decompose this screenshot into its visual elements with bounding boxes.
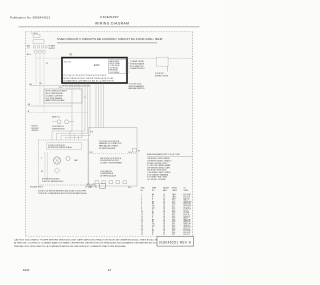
svg-text:P4-1: P4-1 (172, 223, 175, 225)
svg-text:WIRE DESIGNATION BY COLOR CODE: WIRE DESIGNATION BY COLOR CODE (147, 153, 181, 156)
svg-text:P2-2: P2-2 (172, 209, 175, 211)
svg-text:P4-6: P4-6 (172, 232, 175, 234)
svg-text:10 V VIOLET / VIOLETA: 10 V VIOLET / VIOLETA (147, 178, 166, 181)
svg-text:POSITION / COMMUTATEUR EN POSI: POSITION / COMMUTATEUR EN POSITION DEVER… (38, 192, 87, 195)
svg-text:TB-L2: TB-L2 (172, 198, 176, 200)
P3 text block 2 (100, 158, 123, 165)
svg-text:1: 1 (141, 194, 142, 196)
svg-text:W: W (28, 111, 30, 113)
svg-text:GND OR: GND OR (184, 225, 191, 227)
svg-text:DS-C W: DS-C W (184, 214, 190, 216)
anti-tip note text (129, 83, 146, 90)
svg-text:P4-2: P4-2 (172, 225, 175, 227)
supply wire N (39, 54, 41, 106)
svg-text:PRB-1 BL: PRB-1 BL (184, 221, 191, 223)
svg-text:WIRE: WIRE (152, 187, 156, 189)
svg-text:P1-4: P1-4 (172, 200, 175, 202)
P3 text block 3 (100, 171, 117, 178)
wiring table rows (141, 194, 192, 236)
svg-text:FROM: FROM (172, 187, 177, 189)
svg-text:SW-NO BR: SW-NO BR (184, 201, 193, 203)
terminal screws row (28, 46, 48, 48)
svg-text:17: 17 (141, 223, 143, 225)
svg-text:18: 18 (163, 210, 165, 212)
svg-text:EOC-5 BK: EOC-5 BK (184, 230, 192, 232)
diagram right border (192, 32, 194, 236)
svg-text:P2-1: P2-1 (172, 207, 175, 209)
svg-text:P1: P1 (46, 63, 48, 65)
svg-text:OVEN CIRCUIT /\ CIRCUITS DE CU: OVEN CIRCUIT /\ CIRCUITS DE CUISSON / CI… (57, 37, 162, 41)
wire GR to left (28, 105, 72, 107)
wires into lock motor box (52, 106, 90, 140)
svg-text:18: 18 (163, 221, 165, 223)
motor note text (32, 126, 40, 132)
svg-text:INTERR. PORTE: INTERR. PORTE (155, 76, 169, 78)
svg-text:SUPPLY: SUPPLY (49, 48, 56, 50)
svg-text:INTERRUPTEUR: INTERRUPTEUR (52, 128, 65, 130)
svg-text:MTR-1 BL: MTR-1 BL (184, 203, 191, 205)
svg-text:DE VERROUILLAGE: DE VERROUILLAGE (99, 147, 116, 150)
svg-text:TERM.: TERM. (184, 190, 190, 192)
svg-text:P3-6 BK/W P3-8 W: P3-6 BK/W P3-8 W (30, 187, 43, 189)
note box text (46, 91, 67, 103)
EOC bottom pin ticks (64, 82, 124, 83)
svg-text:TERM.: TERM. (172, 190, 178, 192)
lock motor symbol (53, 157, 60, 164)
EOC relay list box (109, 60, 127, 74)
svg-text:18: 18 (163, 223, 165, 225)
EOC relay list text (110, 60, 121, 74)
svg-text:EOC: EOC (94, 63, 100, 67)
svg-text:GY: GY (152, 209, 154, 211)
svg-text:20: 20 (141, 228, 143, 230)
door switch wiring (52, 121, 57, 123)
svg-text:22: 22 (141, 232, 143, 234)
svg-text:TB-L1: TB-L1 (172, 194, 176, 196)
diagram top border (26, 31, 193, 33)
svg-text:12: 12 (141, 214, 143, 216)
svg-text:P2-3: P2-3 (172, 210, 175, 212)
svg-text:10: 10 (141, 210, 143, 212)
svg-text:14: 14 (163, 194, 165, 196)
svg-text:DS-NO R: DS-NO R (184, 216, 191, 218)
svg-text:DOOR SWITCH: DOOR SWITCH (52, 126, 64, 128)
svg-text:P1-6: P1-6 (172, 203, 175, 205)
part number box (157, 237, 194, 247)
oven circuit title underline (57, 42, 157, 44)
wire BK to left (30, 85, 65, 87)
svg-text:18: 18 (163, 214, 165, 216)
svg-text:18: 18 (163, 216, 165, 218)
legend underline (147, 156, 193, 158)
svg-text:EOC-6 W: EOC-6 W (184, 232, 191, 234)
svg-text:BK W R Y BR BL GR OR G: BK W R Y BR BL GR OR GY V BK W R Y (63, 85, 91, 87)
svg-text:C30EW45P: C30EW45P (100, 15, 119, 19)
svg-text:P4-5: P4-5 (172, 230, 175, 232)
svg-text:4: 4 (141, 200, 142, 202)
svg-text:18: 18 (163, 227, 165, 229)
svg-text:14: 14 (141, 218, 143, 220)
svg-text:WIRING DIAGRAM: WIRING DIAGRAM (95, 22, 129, 26)
svg-text:BL: BL (152, 221, 154, 223)
svg-text:E230: E230 (23, 268, 30, 272)
svg-text:CLOSED / PORTE FERMEE: CLOSED / PORTE FERMEE (100, 163, 123, 165)
svg-text:P3-4: P3-4 (129, 152, 132, 154)
svg-text:P3-6: P3-6 (172, 219, 175, 221)
diagram area tint (26, 32, 193, 237)
meat probe note text (130, 60, 145, 70)
svg-text:14: 14 (163, 196, 165, 198)
svg-text:16: 16 (141, 221, 143, 223)
lock cam diamond (54, 168, 60, 174)
svg-text:P3-1: P3-1 (88, 187, 91, 189)
svg-text:MOTOR: MOTOR (32, 126, 39, 128)
door switch box (156, 57, 168, 66)
svg-text:Y: Y (152, 200, 153, 202)
svg-text:SW-C Y: SW-C Y (184, 200, 190, 202)
svg-text:EOC-4 V: EOC-4 V (184, 228, 191, 230)
svg-text:SHOWN IN UNLOCKED: SHOWN IN UNLOCKED (42, 178, 60, 180)
svg-text:14: 14 (163, 198, 165, 200)
door lock motor box (39, 140, 89, 185)
svg-text:PRB-2 GR: PRB-2 GR (184, 223, 192, 225)
svg-text:318046251 REV A: 318046251 REV A (159, 241, 192, 245)
svg-text:MTR-2 GR: MTR-2 GR (184, 205, 192, 207)
wire bundle below EOC (65, 83, 104, 127)
svg-text:9: 9 (141, 209, 142, 211)
svg-text:18: 18 (163, 234, 165, 236)
svg-text:18: 18 (163, 209, 165, 211)
svg-text:18: 18 (163, 225, 165, 227)
svg-text:TB-N: TB-N (172, 196, 176, 198)
lock switch aux box (100, 184, 106, 188)
svg-text:P3-8: P3-8 (172, 221, 175, 223)
svg-text:EOC-3 R: EOC-3 R (184, 198, 191, 200)
supply wire L2 (43, 54, 45, 113)
svg-text:EOC-1 BK: EOC-1 BK (184, 194, 192, 196)
lock switch symbol (85, 184, 97, 187)
svg-text:CAUTION: DISCONNECT POWER BEFO: CAUTION: DISCONNECT POWER BEFORE SERVICI… (14, 238, 179, 241)
svg-text:Publication No. 5995434513: Publication No. 5995434513 (10, 16, 50, 20)
svg-text:BL: BL (152, 203, 154, 205)
svg-text:5: 5 (141, 201, 142, 203)
diagram left border (25, 32, 27, 237)
svg-text:BK/W P1-5: BK/W P1-5 (52, 116, 60, 118)
svg-text:11: 11 (141, 212, 143, 214)
dotted wire W (28, 112, 88, 114)
svg-text:LK-C OR: LK-C OR (184, 207, 191, 209)
svg-text:13: 13 (108, 268, 112, 272)
svg-text:18: 18 (163, 218, 165, 220)
svg-text:P3-9: P3-9 (128, 187, 131, 189)
note box (44, 89, 82, 103)
svg-text:P3-4: P3-4 (172, 218, 175, 220)
svg-text:DE VERROUILLAGE: DE VERROUILLAGE (100, 175, 117, 178)
svg-text:LK-NO GY: LK-NO GY (184, 209, 191, 211)
op board EOC outline (62, 58, 127, 83)
svg-text:FAISCEAU VERROU: FAISCEAU VERROU (129, 87, 146, 90)
svg-text:15: 15 (141, 219, 143, 221)
terminal block TB (33, 40, 44, 44)
svg-text:LP-2 BK: LP-2 BK (184, 212, 191, 214)
door switch circle 2 (65, 120, 69, 124)
svg-text:P3-2: P3-2 (172, 216, 175, 218)
svg-text:P1-7: P1-7 (172, 205, 175, 207)
svg-text:P4-4: P4-4 (172, 228, 175, 230)
svg-text:18: 18 (163, 228, 165, 230)
svg-text:18: 18 (163, 203, 165, 205)
svg-text:7: 7 (141, 205, 142, 207)
wiring table header (141, 186, 190, 191)
lock cam circle (66, 156, 70, 160)
svg-text:18: 18 (163, 207, 165, 209)
svg-text:P1-1 P1-2: P1-1 P1-2 (64, 61, 71, 63)
svg-text:ITEM: ITEM (141, 187, 145, 189)
lock motor header box (47, 143, 82, 150)
svg-text:18: 18 (163, 219, 165, 221)
svg-text:PRECAUCION: DESCONECTE LA CORR: PRECAUCION: DESCONECTE LA CORRIENTE ANTE… (14, 245, 127, 248)
connector box P3 (89, 128, 138, 186)
svg-text:VERROU: VERROU (32, 130, 40, 132)
svg-text:ATTENTION: COUPER LE COURANT A: ATTENTION: COUPER LE COURANT AVANT DE FA… (14, 242, 179, 245)
svg-text:19: 19 (141, 227, 143, 229)
svg-text:MOTEUR: MOTEUR (32, 128, 40, 130)
terminal block upper rect (33, 35, 40, 38)
svg-text:13: 13 (141, 216, 143, 218)
svg-text:CONNECTEUR P4: CONNECTEUR P4 (130, 68, 145, 70)
svg-text:POSITION / DEVERROUILLE: POSITION / DEVERROUILLE (42, 181, 63, 183)
svg-text:18: 18 (163, 201, 165, 203)
svg-text:18: 18 (163, 212, 165, 214)
svg-text:3: 3 (141, 198, 142, 200)
svg-text:P4-3: P4-3 (172, 227, 175, 229)
P3 dashed wire (89, 153, 137, 155)
wire from EOC to door switch (127, 57, 156, 59)
supply wire L1 (35, 54, 37, 86)
svg-text:21: 21 (141, 230, 143, 232)
lock motor inner wires (44, 152, 46, 178)
connector P2 on box edge (133, 148, 137, 152)
svg-text:AVANT VERROUILLAGE: AVANT VERROUILLAGE (46, 99, 66, 102)
svg-text:8: 8 (141, 207, 142, 209)
svg-text:P3-1: P3-1 (172, 214, 175, 216)
svg-text:TB-GD GY: TB-GD GY (184, 227, 191, 229)
svg-text:EOC-2 W: EOC-2 W (184, 196, 191, 198)
wire door switch to right border (168, 57, 192, 59)
wire door switch drop (167, 66, 169, 71)
svg-text:BK-2: BK-2 (27, 54, 31, 56)
P3 text block 1 (99, 141, 122, 150)
svg-text:EOC-7 R: EOC-7 R (184, 234, 191, 236)
wire dashed stub to EOC left edge (36, 57, 62, 59)
diagram bottom border (26, 236, 157, 238)
svg-text:P2: P2 (138, 150, 140, 152)
svg-text:18: 18 (163, 205, 165, 207)
svg-text:6: 6 (141, 203, 142, 205)
svg-text:MOTEUR DE VERROUILLAGE: MOTEUR DE VERROUILLAGE (48, 146, 73, 149)
svg-text:P3-2: P3-2 (90, 152, 93, 154)
svg-text:23: 23 (141, 234, 143, 236)
svg-text:18: 18 (163, 230, 165, 232)
svg-text:18: 18 (163, 232, 165, 234)
svg-text:GY: GY (152, 227, 154, 229)
svg-text:2: 2 (141, 196, 142, 198)
svg-text:18: 18 (163, 200, 165, 202)
conduit loops (34, 50, 45, 53)
door switch circle 1 (57, 120, 61, 124)
svg-text:P4-7: P4-7 (172, 234, 175, 236)
svg-text:Y: Y (152, 218, 153, 220)
EOC right pin stubs (127, 63, 130, 72)
P3 bottom connector ticks (95, 181, 127, 184)
svg-text:18: 18 (141, 225, 143, 227)
wire color legend rows (147, 157, 172, 181)
header rule (19, 26, 200, 28)
svg-text:P2-4: P2-4 (172, 212, 175, 214)
svg-text:P1-5: P1-5 (172, 201, 175, 203)
